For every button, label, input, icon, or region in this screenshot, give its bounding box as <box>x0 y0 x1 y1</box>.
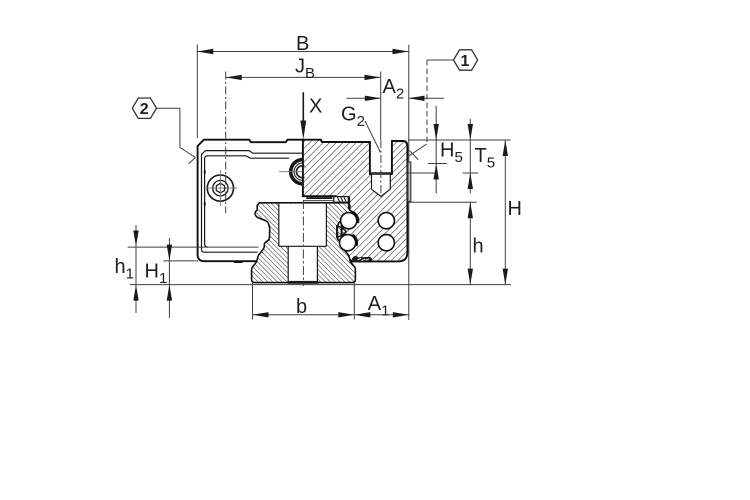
seal band under saddle <box>306 197 332 199</box>
callout 1 leader diagonal <box>408 144 427 157</box>
raceway crescent on upper ball <box>351 212 358 223</box>
dimension line T5 <box>469 119 471 173</box>
svg-text:X: X <box>309 96 322 118</box>
datum arrow X head <box>300 121 306 140</box>
arrow H1 upper <box>167 245 172 261</box>
counterbore right wall <box>325 204 327 247</box>
shank hole right wall <box>316 246 318 281</box>
arrow h lower <box>468 269 473 285</box>
arrow b right <box>338 312 354 317</box>
svg-text:h: h <box>473 236 484 258</box>
arrow A2 left <box>365 96 381 101</box>
hole G2 bore left <box>371 174 373 189</box>
arrow A1 left <box>354 312 370 317</box>
hole G2 thread end lines <box>370 172 392 174</box>
screw head M1 outer circle <box>207 175 233 201</box>
dimension line A2 right part <box>409 97 445 99</box>
svg-text:1: 1 <box>460 53 469 70</box>
screw M2 middle arc <box>294 163 303 181</box>
dimension line A1 <box>354 314 409 316</box>
arrow A2 right <box>409 96 425 101</box>
ball upper right (return bore) <box>378 213 394 229</box>
dimension line H1 <box>168 238 170 318</box>
dimension line b <box>253 314 355 316</box>
saddle corner edge <box>334 196 336 202</box>
screw M1 vertical centerline <box>219 170 221 206</box>
bottom seal spring chevrons <box>358 258 370 260</box>
leader G2 <box>365 121 381 153</box>
dimension line h <box>469 202 471 284</box>
arrow h upper <box>468 202 473 218</box>
bottom left seal tick <box>234 261 243 263</box>
end plate inner contour 2 <box>205 156 289 247</box>
dimension line T5 lower shaft <box>469 173 471 193</box>
extension line B left <box>196 45 198 138</box>
seal band lower line <box>303 200 335 202</box>
top seal bracket hatch ticks <box>338 197 347 201</box>
screw M2 centerline <box>279 171 303 173</box>
arrow T5 upper <box>468 124 473 140</box>
reference line h1 <box>128 246 259 248</box>
saddle bottom edge <box>303 195 335 197</box>
arrow A1 right <box>393 312 409 317</box>
contour tick lower <box>204 202 206 205</box>
hole bottom dark band <box>288 281 319 284</box>
arrow H upper <box>503 140 508 156</box>
arrow H lower <box>503 269 508 285</box>
top seal lip <box>348 197 350 210</box>
dimension line JB <box>226 76 381 78</box>
ball lower left <box>340 235 356 251</box>
raceway crescent on lower ball <box>352 235 357 246</box>
arrow h1 upper <box>133 231 138 247</box>
svg-text:b: b <box>296 296 307 318</box>
hole G2 drill cone <box>372 189 391 196</box>
hole G2 bore right <box>389 174 391 189</box>
shank hole left wall <box>287 246 289 281</box>
carriage inner boundary around raceway <box>342 203 353 262</box>
carriage section hatched area <box>303 140 408 262</box>
carriage outline left and top <box>198 140 370 255</box>
arrow H5 lower <box>434 164 439 180</box>
arrow JB left <box>226 75 242 80</box>
callout hexagon 1 <box>454 50 478 70</box>
section boundary line <box>302 140 304 197</box>
ball lower right (return bore) <box>378 235 394 251</box>
arrow T5 lower <box>468 173 473 189</box>
reference line H1 <box>163 260 198 262</box>
callout 2 leader <box>157 108 196 157</box>
carriage outline right <box>352 141 407 261</box>
screw M1 horizontal centerline <box>204 187 238 189</box>
bottom seal lip <box>352 256 372 262</box>
threaded hole G2 left edge <box>369 142 371 174</box>
extension line B right / A1 right <box>408 45 410 320</box>
contour tick upper <box>204 170 206 173</box>
screw head M2 half ring <box>289 158 303 186</box>
dimension line B <box>197 51 408 53</box>
side sealing strip (item 1) <box>407 162 410 202</box>
callout 1 leader horizontal <box>427 59 454 61</box>
callout 2 leader barb <box>189 158 196 164</box>
dimension line A2 left part <box>346 97 380 99</box>
extension line b left <box>252 283 254 320</box>
extension line b right / A1 left <box>353 283 355 320</box>
rail shoulder wedge between balls <box>337 226 346 238</box>
rail bolt shank hole <box>288 246 317 282</box>
rail bolt counterbore <box>279 204 327 247</box>
dimension line H5 lower shaft <box>435 164 437 194</box>
threaded hole G2 right edge <box>391 141 393 174</box>
extension line JB right / G2 hole <box>380 72 382 141</box>
reference line T5 right <box>463 172 479 174</box>
svg-text:H: H <box>508 198 522 220</box>
svg-text:2: 2 <box>140 101 149 118</box>
svg-text:B: B <box>296 33 309 55</box>
callout 1 cross tick <box>409 150 418 159</box>
datum arrow X shaft <box>302 92 304 122</box>
extension centerline JB left <box>225 72 227 214</box>
top seal bracket <box>334 197 349 203</box>
rail centerline <box>302 200 304 286</box>
arrow H1 lower <box>167 285 172 301</box>
reference line T5 left <box>405 172 436 174</box>
reference line H5 <box>428 163 447 165</box>
dimension line h1 <box>135 225 137 313</box>
ball upper left <box>341 213 357 229</box>
counterbore bottom <box>279 245 327 247</box>
screw M2 socket arc <box>296 166 304 178</box>
carriage outline bottom left <box>198 255 257 262</box>
arrow b left <box>253 312 269 317</box>
rail hatch and outline <box>252 203 356 283</box>
dimension line H <box>504 140 506 285</box>
guideway rail section <box>252 203 356 283</box>
arrow B left <box>197 49 213 54</box>
hole G2 centerline <box>380 140 382 200</box>
callout hexagon 2 <box>132 98 156 118</box>
callout 1 leader dashed vertical <box>426 60 428 144</box>
arrow JB right <box>365 75 381 80</box>
end plate inner contour 1 <box>202 151 303 253</box>
dimension line H5 <box>435 106 437 164</box>
counterbore left wall <box>278 204 280 247</box>
mounting surface line <box>130 284 511 286</box>
reference line h <box>408 201 477 203</box>
reference line top edge extended <box>408 139 511 141</box>
arrow B right <box>393 49 409 54</box>
arrow h1 lower <box>133 285 138 301</box>
arrow H5 upper <box>434 124 439 140</box>
